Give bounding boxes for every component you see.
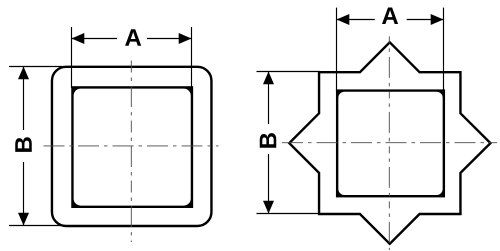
horizontal centerline of right figure [282,142,497,144]
horizontal centerline of left figure [44,145,219,147]
dimension B of left figure: bottom extension line [9,225,62,227]
dimension B of left figure: bottom arrowhead [18,213,29,226]
outer square tube profile (left figure) [52,67,212,226]
inner bore band of right figure (sharp outer corners) [336,89,445,197]
dimension A of right figure: dimension line left segment [337,19,375,21]
dimension B of right figure: top extension line [257,71,321,73]
dimension A label of right figure [382,7,398,24]
dimension A of right figure: left arrowhead [337,14,350,25]
inner bore band of left figure (sharp outer corners) [71,86,193,208]
dimension A of right figure: dimension line right segment [407,19,444,21]
inner bore white area of left figure (rounded corners) [74,89,191,206]
dimension A of right figure: right extension line [443,8,445,91]
inner bore white area of right figure (rounded corners) [338,92,442,195]
dimension B label of right figure [260,133,277,148]
dimension B label of left figure [15,137,32,152]
dimension A of left figure: left arrowhead [72,33,85,44]
dimension B of right figure: top arrowhead [263,72,274,85]
dimension B of right figure: bottom extension line [257,213,321,215]
vertical centerline of left figure [130,61,132,243]
dimension A of left figure: dimension line left segment [72,38,118,40]
dimension B of right figure: dimension line top segment [268,72,270,125]
dimension B of right figure: dimension line bottom segment [268,154,270,214]
dimension A label of left figure [125,29,141,46]
vertical centerline of right figure [388,36,390,250]
dimension A of right figure: left extension line [336,8,338,91]
dimension B of left figure: dimension line top segment [23,67,25,131]
dimension A of left figure: dimension line right segment [147,38,192,40]
star profile outline (right figure) [289,42,490,243]
dimension A of left figure: right arrowhead [179,33,192,44]
dimension A of right figure: right arrowhead [431,14,444,25]
dimension A of left figure: left extension line [71,27,73,88]
dimension B of right figure: bottom arrowhead [263,201,274,214]
dimension B of left figure: top arrowhead [18,67,29,80]
dimension B of left figure: top extension line [9,66,62,68]
dimension B of left figure: dimension line bottom segment [23,162,25,226]
dimension A of left figure: right extension line [191,27,193,88]
